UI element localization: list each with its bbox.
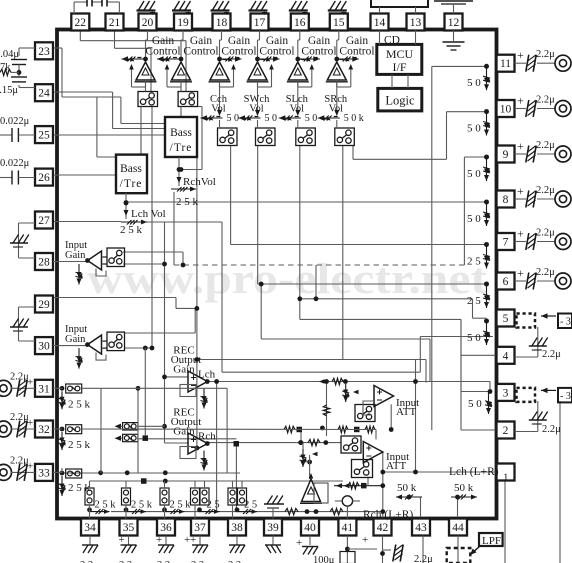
svg-text:+: + <box>517 266 524 280</box>
ground below pin 37 <box>184 534 208 553</box>
svg-text:/Tre: /Tre <box>120 178 143 190</box>
wire staircase B <box>261 284 430 382</box>
svg-text:41: 41 <box>342 522 354 534</box>
svg-text:5 0: 5 0 <box>467 213 481 225</box>
wire REC switch 2 out <box>138 438 237 440</box>
wire op-amp to SLch vol <box>295 82 300 116</box>
pin 19 <box>174 14 192 31</box>
svg-text:1.04μ: 1.04μ <box>0 49 19 60</box>
pot input gain 2 <box>76 348 83 369</box>
svg-text:7: 7 <box>503 237 509 249</box>
wire pot to pin44 <box>457 497 459 519</box>
wire pin to input gain 2 <box>53 345 88 347</box>
resistor input ATT 1 <box>319 378 343 384</box>
svg-text:RchVol: RchVol <box>183 176 216 188</box>
svg-text:+: + <box>302 7 308 19</box>
wire input bus <box>147 222 222 443</box>
output cap/jack pin 7 <box>515 227 572 251</box>
pin 15 <box>330 14 348 31</box>
pin 27 <box>35 212 53 229</box>
pot input gain 1 <box>76 264 83 285</box>
svg-text:2 5: 2 5 <box>207 500 220 511</box>
pin 7 <box>497 233 515 250</box>
pin 4 <box>497 347 515 364</box>
op-amp gain control 4 <box>247 62 269 82</box>
wire REC Rch out <box>207 442 341 444</box>
feedback gain control 5 <box>298 64 314 87</box>
wire mid vertical <box>415 360 417 473</box>
cap 100u below pin 40 <box>296 536 335 563</box>
svg-text:Control: Control <box>301 46 336 58</box>
wire vertical x138 <box>136 386 141 473</box>
svg-text:+: + <box>190 534 196 546</box>
switch below SRch vol <box>335 120 355 146</box>
svg-text:50 k: 50 k <box>454 482 474 494</box>
pin 3 <box>497 384 515 401</box>
wire SWch box down <box>258 146 487 285</box>
ground/cap above pin 20 <box>137 1 156 19</box>
pin 32 <box>35 421 53 438</box>
pot REC Rch <box>201 451 208 471</box>
feedback REC Lch <box>180 385 196 397</box>
svg-text:5: 5 <box>503 313 509 325</box>
switch Input ATT 2b <box>352 460 373 478</box>
wire pin to gain control 4 <box>258 31 260 58</box>
svg-text:Logic: Logic <box>385 94 415 108</box>
svg-text:23: 23 <box>38 46 50 58</box>
op-amp input gain 1 <box>85 251 107 276</box>
ground/cap above pin 19 <box>172 1 191 19</box>
pot 2.5k bottom col 3 <box>165 500 192 515</box>
wire pin to gain control 3 <box>220 31 222 58</box>
wire S1 to Bass/Tre1 <box>140 107 142 155</box>
svg-text:0.15μ: 0.15μ <box>0 85 18 96</box>
svg-text:42: 42 <box>377 522 389 534</box>
pin 36 <box>157 519 175 536</box>
wire REC Lch in <box>165 376 189 378</box>
wire pin23 internal <box>53 48 165 157</box>
switch below SWch vol <box>256 120 276 146</box>
cap below pin 42 <box>380 536 403 563</box>
svg-text:2 5: 2 5 <box>467 256 481 268</box>
svg-text:Control: Control <box>221 46 256 58</box>
pin 25 <box>35 126 53 143</box>
switch pin 31 <box>53 384 227 393</box>
svg-text:27: 27 <box>38 215 50 227</box>
pin 2 <box>497 422 515 439</box>
wire Lch Vol to pin8 pot <box>126 201 487 203</box>
ground below pin 38 <box>229 536 245 554</box>
svg-text:- 3: - 3 <box>560 391 571 402</box>
wire bottom bus a <box>62 472 240 474</box>
svg-text:2 5 k: 2 5 k <box>95 500 117 511</box>
wire pin24 internal <box>53 92 165 129</box>
wire pin26 to Bass/Tre1 <box>53 174 116 176</box>
Bass/Tre block 2 (Rch) <box>165 117 197 157</box>
wire S1 second output bus <box>151 107 153 349</box>
svg-text:/Tre: /Tre <box>170 142 193 154</box>
wire pin9 pot feed <box>464 157 486 265</box>
wire SRch box down <box>342 146 344 360</box>
svg-text:+: + <box>27 376 33 388</box>
cap below pin 41 <box>340 534 377 563</box>
ground below pin 39 <box>265 536 281 554</box>
svg-text:2 5: 2 5 <box>467 295 481 307</box>
pin 23 <box>35 42 53 59</box>
pot 50k to pin44 <box>451 482 477 500</box>
svg-text:31: 31 <box>38 383 50 395</box>
switch below SLch vol <box>296 120 316 146</box>
resistor REC Rch out <box>308 439 320 445</box>
svg-text:50 k: 50 k <box>397 482 417 494</box>
op-amp gain control 5 <box>287 62 309 82</box>
svg-text:+: + <box>224 7 230 19</box>
pin 37 <box>191 519 209 536</box>
capacitors above pins 22/21 <box>74 0 119 14</box>
svg-text:13: 13 <box>410 17 422 29</box>
gain control pot 5 <box>295 56 319 63</box>
pin 13 <box>407 14 425 31</box>
svg-text:Lch: Lch <box>198 369 216 381</box>
svg-text:7k: 7k <box>0 62 11 73</box>
svg-text:5 0: 5 0 <box>467 332 481 344</box>
pin 43 <box>412 519 430 536</box>
wire pin3 right-3 drop <box>559 401 561 563</box>
op-amp gain control 2 <box>170 62 192 82</box>
pin 31 <box>35 380 53 397</box>
wire op-amp to SRch vol <box>334 82 339 116</box>
switch pin 33 <box>53 468 82 478</box>
ground pin 12 inside <box>443 31 465 51</box>
svg-text:2 5 k: 2 5 k <box>131 500 153 511</box>
wire REC Rch in <box>165 442 189 444</box>
pin 22 <box>71 14 89 31</box>
SLch Vol pot 50k <box>279 113 318 124</box>
svg-text:+: + <box>517 48 524 62</box>
pin 44 <box>449 519 467 536</box>
component box above pins 14/13 <box>371 0 428 14</box>
pot 50k pin 7 <box>467 242 490 268</box>
pin 9 <box>497 146 515 163</box>
pot 25k pin 33 <box>59 476 91 496</box>
svg-text:24: 24 <box>38 88 50 100</box>
Cch Vol pot 50k <box>201 113 240 124</box>
ground below pin 36 <box>156 534 174 553</box>
switch pin 32 <box>53 425 376 434</box>
gain control label 4 <box>259 35 294 58</box>
svg-text:Vol: Vol <box>329 104 343 115</box>
wire pot3 feed <box>461 319 490 391</box>
svg-text:2.2μ: 2.2μ <box>536 228 555 239</box>
pin 35 <box>120 519 138 536</box>
svg-text:38: 38 <box>231 522 243 534</box>
pin 20 <box>139 14 157 31</box>
pot 50k pin 11 <box>467 64 490 90</box>
pot 50k pin 6 <box>467 282 490 308</box>
wire ATT1 out down <box>390 404 392 429</box>
capacitor 0.022u pin26 <box>0 158 35 185</box>
svg-text:2 5 k: 2 5 k <box>68 439 91 451</box>
wire stubs to bottom pins <box>90 508 274 519</box>
Bass/Tre block 1 (Lch) <box>116 155 147 194</box>
op-amp REC Rch <box>188 433 210 454</box>
gain control pot 2 <box>157 56 183 63</box>
wire vertical x101 <box>100 388 102 473</box>
svg-text:4: 4 <box>503 350 509 362</box>
RCA jack / cap 2.2u pin 33 <box>0 455 35 481</box>
wire ATT2 feed drop <box>301 430 376 443</box>
svg-text:5 0: 5 0 <box>305 113 318 124</box>
svg-text:10: 10 <box>500 104 512 116</box>
op-amp gain control 1 <box>135 62 157 82</box>
wire input gain2 out <box>124 308 195 333</box>
wire pin to gain control 6 <box>337 31 339 58</box>
svg-text:Vol: Vol <box>249 104 263 115</box>
pin 34 <box>81 519 99 536</box>
gain control label 3 <box>221 35 256 58</box>
cap/gnd pin 2 <box>515 401 562 435</box>
svg-text:2 5: 2 5 <box>244 500 257 511</box>
pin 30 <box>35 337 53 354</box>
wire pot to pin43 <box>420 497 422 519</box>
svg-text:Rch (L+R): Rch (L+R) <box>363 509 413 521</box>
output cap/jack pin 6 <box>515 266 572 290</box>
pin 28 <box>35 253 53 270</box>
wire mid row 359 <box>197 360 426 383</box>
feedback gain control 2 <box>165 64 181 87</box>
SWch Vol pot 50k <box>239 113 278 124</box>
watermark <box>87 256 488 303</box>
svg-text:22: 22 <box>75 17 87 29</box>
resistor vertical ATT <box>323 405 329 416</box>
SRch Vol pot 50k <box>318 113 364 124</box>
pot 25k pin 32 <box>59 432 91 451</box>
ground/cap above pin 15 <box>328 1 347 19</box>
switch S2 (Rch) <box>178 82 198 107</box>
pin 38 <box>228 519 246 536</box>
wire SLch box down <box>300 146 487 320</box>
svg-text:LPF: LPF <box>482 535 501 547</box>
wire res drop ATT1 <box>326 382 328 437</box>
svg-text:40: 40 <box>304 522 316 534</box>
svg-text:21: 21 <box>109 17 121 29</box>
svg-text:+: + <box>262 7 268 19</box>
svg-text:30: 30 <box>38 341 50 353</box>
svg-text:Control: Control <box>183 46 218 58</box>
pin 39 <box>264 519 282 536</box>
pin 1 <box>449 464 515 484</box>
svg-text:+: + <box>362 534 368 546</box>
svg-text:43: 43 <box>415 522 427 534</box>
output cap/jack pin 11 <box>515 48 572 71</box>
pot Input ATT 2 <box>300 443 318 467</box>
svg-text:2.2μ: 2.2μ <box>542 349 561 360</box>
pin 42 <box>374 519 392 536</box>
op-amp mixer (pin40) <box>300 455 328 503</box>
wire staircase A <box>222 222 493 372</box>
pot 2.5k bottom col 4 <box>200 500 220 515</box>
gain control label 6 <box>339 35 374 58</box>
svg-text:25: 25 <box>38 130 50 142</box>
svg-text:34: 34 <box>84 522 96 534</box>
pin 29 <box>35 296 53 313</box>
wire Rch Vol down <box>173 192 175 265</box>
op-amp REC Lch <box>188 371 210 392</box>
pot REC Lch <box>201 389 208 409</box>
svg-text:2.2μ: 2.2μ <box>536 49 555 60</box>
feedback ATT1 <box>363 401 374 415</box>
lamp/current source pin 41 <box>335 496 360 519</box>
Input ATT 1 label <box>396 397 419 418</box>
svg-text:5 0 k: 5 0 k <box>344 113 364 124</box>
svg-text:2.2μ: 2.2μ <box>536 185 555 196</box>
wire input ATT2 out <box>383 452 497 519</box>
svg-text:0.022μ: 0.022μ <box>0 158 30 169</box>
svg-text:14: 14 <box>374 17 386 29</box>
cap/gnd pin 4 <box>515 327 562 360</box>
RCA jack / cap 2.2u pin 31 <box>0 371 35 397</box>
gain control pot 6 <box>334 56 358 63</box>
pin 14 <box>371 14 389 31</box>
wire input gain1 out <box>123 252 183 265</box>
switch Input ATT 2a <box>341 436 361 453</box>
wires pins 14/13 to MCU <box>380 31 416 45</box>
svg-text:Lch Vol: Lch Vol <box>131 208 166 220</box>
wire vertical x227 <box>226 388 228 473</box>
pot 50k pin 10 <box>467 109 490 135</box>
switch pair bottom col 5 <box>228 481 247 510</box>
output cap/jack pin 10 <box>515 94 572 118</box>
wire pin11 pot feed <box>432 66 487 430</box>
SLch Vol label <box>286 94 309 115</box>
pin 5 <box>497 310 515 327</box>
svg-text:29: 29 <box>38 299 50 311</box>
svg-text:35: 35 <box>123 522 135 534</box>
pin 41 <box>338 519 356 536</box>
pin 8 <box>497 191 515 208</box>
wire pin to input gain 1 <box>53 261 88 263</box>
feedback REC Rch <box>180 447 196 459</box>
svg-text:5 0: 5 0 <box>467 77 481 89</box>
wire op-amp to Cch vol <box>217 82 222 116</box>
svg-text:2 5 k: 2 5 k <box>120 224 143 236</box>
svg-text:37: 37 <box>194 522 206 534</box>
svg-text:39: 39 <box>267 522 279 534</box>
Lch Vol pot 25k <box>120 193 166 236</box>
gain control pot 1 <box>122 56 148 63</box>
svg-text:Bass: Bass <box>170 127 192 139</box>
CD label <box>384 35 400 47</box>
svg-text:5 0: 5 0 <box>467 168 481 180</box>
svg-text:+: + <box>185 7 191 19</box>
svg-text:+: + <box>517 94 524 108</box>
svg-text:2.2μ: 2.2μ <box>536 140 555 151</box>
svg-text:2.2μ: 2.2μ <box>536 95 555 106</box>
wire pin21 internal <box>115 31 152 92</box>
pot 25k pin 31 <box>59 391 91 410</box>
ground/cap above pin 17 <box>249 1 268 19</box>
resistor bottom <box>285 508 343 514</box>
switch bottom col 3 <box>160 481 169 510</box>
wire S2 bypass <box>181 107 202 170</box>
ground hatch bottom inside <box>264 496 284 509</box>
wire REC bus <box>196 140 198 448</box>
wire S1bus to REC switch <box>144 348 146 435</box>
svg-text:Vol: Vol <box>211 104 225 115</box>
wire bottom bus c <box>111 511 383 513</box>
pin 24 <box>35 84 53 101</box>
switch pair bottom col 4 <box>191 481 210 510</box>
op-amp Input ATT 2 <box>363 442 383 463</box>
mute switch dashed pin 5 <box>517 313 572 328</box>
output cap/jack pin 9 <box>515 139 572 163</box>
svg-text:8: 8 <box>503 194 509 206</box>
svg-text:+: + <box>156 534 162 546</box>
svg-text:5 0: 5 0 <box>227 113 240 124</box>
capacitor 0.022u pin25 <box>0 116 35 142</box>
ground below pin 34 <box>82 536 98 554</box>
svg-text:+: + <box>517 227 524 241</box>
ground below pin 35 <box>119 534 137 553</box>
pot 50k pin 3 <box>468 392 492 415</box>
pot 2.5k bottom col 2 <box>126 500 153 515</box>
wire pin27 to Lch Vol <box>53 221 121 223</box>
svg-text:2.2μ: 2.2μ <box>542 424 561 435</box>
mute switch dashed pin 3 <box>517 388 572 403</box>
svg-text:Control: Control <box>339 46 374 58</box>
svg-text:www.pro-electr.net: www.pro-electr.net <box>87 256 488 303</box>
ground/cap above pin 16 <box>289 1 308 19</box>
svg-text:11: 11 <box>500 58 511 70</box>
gain control pot 3 <box>217 56 241 63</box>
wire pin to gain control 5 <box>298 31 300 58</box>
svg-text:+: + <box>296 537 302 549</box>
Logic block <box>378 88 422 111</box>
wire pin to gain control 1 <box>146 31 148 58</box>
gain control label 5 <box>301 35 336 58</box>
svg-text:MCU: MCU <box>386 47 414 61</box>
svg-text:5 0: 5 0 <box>468 398 482 410</box>
feedback gain control 1 <box>129 64 145 87</box>
wire pin22 internal <box>80 31 186 92</box>
op-amp Input ATT 1 <box>374 386 394 407</box>
arrow row below ATT2 <box>334 477 383 489</box>
svg-text:44: 44 <box>452 522 464 534</box>
wire pin1 drop outside <box>504 481 506 563</box>
wire pin to gain control 2 <box>181 31 183 58</box>
pin 17 <box>251 14 269 31</box>
Rch Vol pot 25k <box>171 157 216 208</box>
pin 16 <box>291 14 309 31</box>
REC input switches <box>115 423 165 442</box>
svg-text:2 5 k: 2 5 k <box>68 398 91 410</box>
LPF block pin 44 <box>447 533 503 563</box>
wires MCU to Logic <box>392 75 408 89</box>
wire op-amp to SWch vol <box>255 82 260 116</box>
pin 6 <box>497 273 515 290</box>
svg-text:Vol: Vol <box>290 104 304 115</box>
pin 11 <box>497 55 515 72</box>
wire pin25 to Bass/Tre2 <box>53 134 165 136</box>
svg-text:I/F: I/F <box>392 60 406 74</box>
pot below ATT1 dot <box>342 384 358 402</box>
svg-text:+: + <box>27 417 33 429</box>
wire input gain2 out2 <box>124 347 152 349</box>
pot 2.5k bottom col 5 <box>237 500 257 515</box>
svg-text:2.2μ: 2.2μ <box>414 554 433 563</box>
capacitor above pin 12 <box>434 1 473 14</box>
svg-text:+: + <box>517 184 524 198</box>
